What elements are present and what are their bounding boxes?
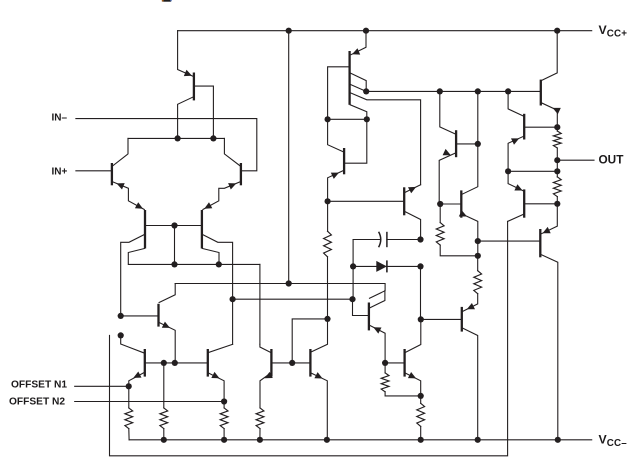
junction VCC+ / Q12 emitter <box>363 28 369 34</box>
junction Q8 base / tie <box>210 135 216 141</box>
wire compensation column <box>420 266 422 319</box>
arrow Q6 emitter <box>211 372 219 378</box>
wire Q9 emitter <box>328 171 344 202</box>
wire Q6 collector row <box>233 298 353 300</box>
resistor R2 <box>160 408 168 429</box>
wire Q4 collector upper <box>203 235 233 345</box>
junction Q20 collector / VCC- <box>555 437 561 443</box>
wire C1/D1 left column <box>352 240 355 300</box>
wire Q2 collector <box>224 138 240 166</box>
transistor Q10 bar <box>270 349 272 377</box>
diode D1 <box>376 261 387 272</box>
decorative cropped glyph <box>162 0 171 2</box>
wire diode column to Q16 base <box>353 299 368 315</box>
junction VCC+ / Q14 collector <box>554 28 560 34</box>
junction bias rail / Q15 collector <box>505 88 511 94</box>
junction Q3-Q4 base tie <box>171 222 177 228</box>
junction C1-D1 left column <box>350 263 356 269</box>
junction Q22 collector / Q23 base <box>418 316 424 322</box>
junction diode column <box>349 296 355 302</box>
junction Q9 emitter / Q18 base row <box>325 198 331 204</box>
capacitor C1 <box>379 232 381 247</box>
resistor R11 <box>553 177 561 197</box>
arrow Q20 emitter <box>543 227 551 233</box>
wire Q15 base <box>525 126 556 128</box>
junction R2 tap <box>161 360 167 366</box>
wire Q13 emitter <box>439 153 455 204</box>
arrow Q14 emitter <box>553 108 561 114</box>
junction Q4 lower collector <box>216 261 222 267</box>
junction Q23 collector / VCC- <box>475 437 481 443</box>
arrow Q10 emitter <box>265 372 273 378</box>
wire Q15 emitter <box>508 136 523 171</box>
wire Q21 collector <box>508 214 524 221</box>
wire Q12 base run <box>328 67 349 120</box>
wire OUT node to row <box>556 160 558 171</box>
wire Q17 emitter <box>462 214 478 256</box>
wire R5 bottom <box>420 426 422 439</box>
junction Q12 collector 4 / IN- net <box>364 116 370 122</box>
wire VCC+ rail <box>178 30 592 32</box>
wire R1 top <box>128 386 130 408</box>
wire R1 bottom <box>128 429 130 440</box>
wire Q22 base <box>385 362 404 364</box>
transistor Q14 bar <box>540 80 542 106</box>
transistor Q18 bar <box>403 187 405 215</box>
junction Q16 emitter / R6 / Q22 base <box>382 360 388 366</box>
junction Q10 base <box>289 360 295 366</box>
junction VCC+ / Q8-Q12 rail <box>286 28 292 34</box>
junction Q12 base / IN- net <box>325 116 331 122</box>
wire Q15 collector <box>508 91 523 116</box>
transistor Q5 bar <box>144 349 146 377</box>
wire Q1 collector <box>113 138 129 166</box>
transistor Q13 bar <box>455 130 457 157</box>
transistor Q21 bar <box>523 189 525 217</box>
wire OUT row link <box>508 170 557 172</box>
wire R7 top from Q18 base row <box>327 201 329 231</box>
arrow Q12 emitter <box>352 48 360 54</box>
wire R10 top <box>556 127 558 131</box>
arrow Q7 emitter <box>162 322 170 328</box>
wire IN+ to Q1 base <box>76 170 111 172</box>
arrow Q22 emitter <box>408 372 416 378</box>
resistor R6 <box>381 373 389 392</box>
wire Q16 collector <box>370 291 385 308</box>
wire Q16 emitter <box>370 325 386 363</box>
wire OFFSET N1 <box>75 385 129 387</box>
resistor R7 <box>324 231 332 257</box>
wire Q3 collector lower <box>128 249 260 265</box>
wire Q12 collector 2 <box>350 84 366 91</box>
wire Q11 emitter <box>311 373 327 440</box>
svg-text:OUT: OUT <box>599 152 625 166</box>
wire Q2 emitter <box>203 182 240 210</box>
wire IN- net segment to Q12 base node <box>328 118 367 120</box>
wire Q22 collector <box>405 319 421 352</box>
transistor Q15 bar <box>523 114 525 140</box>
resistor R10 <box>553 131 561 148</box>
wire Q7 emitter <box>159 323 175 363</box>
junction node N (Q5 collector) <box>118 332 124 338</box>
wire Q1-Q2 collector tie <box>128 137 224 139</box>
wire Q5 emitter <box>129 373 144 387</box>
arrow Q23 emitter <box>467 303 475 309</box>
wire Q10 base link <box>292 319 327 363</box>
arrow Q3 emitter <box>135 202 143 209</box>
wire Q21 base <box>525 203 556 205</box>
junction R4 / VCC- <box>257 437 263 443</box>
junction Q11 emitter / VCC- <box>324 437 330 443</box>
wire R2 bottom <box>163 429 165 440</box>
junction Q17 emitter / Q20 base row <box>475 238 481 244</box>
junction R3 / VCC- <box>221 437 227 443</box>
wire Q23 base <box>421 318 461 320</box>
arrow Q2 emitter <box>228 183 236 189</box>
resistor R4 <box>256 408 264 429</box>
wire Q12 collector 3 run <box>350 93 420 185</box>
svg-text:VCC–: VCC– <box>599 433 628 449</box>
transistor Q23 bar <box>461 307 463 332</box>
wire Q10 base tie <box>272 362 310 364</box>
wire Q20 emitter <box>542 204 558 234</box>
transistor Q6 bar <box>207 349 209 377</box>
junction Q22 emitter / R5 <box>418 393 424 399</box>
junction OUT node <box>554 157 560 163</box>
wire Q3 base tie <box>146 225 202 227</box>
wire Q17 collector column <box>462 91 478 194</box>
arrow Q15 emitter <box>511 138 519 144</box>
junction Q7 emitter / base tie <box>172 360 178 366</box>
wire Q21 emitter <box>508 171 523 191</box>
wire node N to Q5 collector <box>121 335 144 353</box>
junction Q4/Q6 collector <box>230 296 236 302</box>
resistor R5 <box>417 403 425 426</box>
junction D1 / compensation column <box>417 263 423 269</box>
wire Q20 base row <box>478 240 539 242</box>
wire Q17 base <box>440 203 461 205</box>
wire R3 top <box>223 402 225 408</box>
wire Q8 emitter from VCC+ <box>178 31 193 77</box>
wire Q1 emitter <box>113 182 145 210</box>
junction base tie / lower rail <box>171 261 177 267</box>
junction Q12 collectors 1+2 <box>363 88 369 94</box>
resistor R1 <box>125 408 133 429</box>
wire node row to Q7 collector <box>159 284 175 303</box>
wire D1 cathode lead <box>387 265 421 267</box>
wire Q23 collector <box>462 328 477 440</box>
wire Q9 base <box>345 119 367 163</box>
wire Q9 collector <box>328 119 344 152</box>
arrow Q1 emitter <box>117 183 125 189</box>
wire bottom return (node N to Q21 collector) <box>110 221 508 455</box>
wire R10 bottom <box>556 148 558 160</box>
arrow Q21 emitter <box>514 184 522 190</box>
junction Q8 collector / tie <box>175 135 181 141</box>
wire input mirror node row <box>175 284 385 299</box>
transistor Q3 bar <box>144 210 146 249</box>
wire Q10 emitter <box>260 373 271 408</box>
wire VCC+ to input mirror node <box>288 31 290 284</box>
transistor Q2 bar <box>240 163 242 185</box>
wire Q10 collector <box>260 344 271 352</box>
arrow Q16 emitter <box>373 327 381 333</box>
wire R8 top <box>439 204 441 223</box>
wire Q18 emitter <box>405 185 421 193</box>
junction Q13 emitter / Q17 base / R8 <box>437 201 443 207</box>
wire VCC- rail <box>129 439 592 441</box>
arrow Q8 emitter <box>184 70 192 76</box>
arrow Q9 emitter <box>331 173 339 179</box>
junction Q15 emitter / OUT row <box>505 168 511 174</box>
transistor Q9 bar <box>343 148 345 174</box>
wire Q8 base to node A <box>195 86 214 138</box>
wire bias rail to Q14 base <box>366 90 539 92</box>
wire Q14 emitter <box>541 103 557 127</box>
resistor R9 <box>474 271 482 294</box>
transistor Q16 bar <box>368 303 370 331</box>
wire R11 top <box>556 171 558 177</box>
junction R8 / R9 / Q17 emitter <box>475 253 481 259</box>
transistor Q11 bar <box>309 349 311 377</box>
junction R2 / VCC- <box>161 437 167 443</box>
wire R6 bottom <box>385 392 421 396</box>
wire R9 top <box>477 256 479 271</box>
wire Q8 collector to node B <box>178 97 194 139</box>
wire D1 anode lead <box>353 265 376 267</box>
transistor Q4 bar <box>201 210 203 249</box>
wire Q4 collector lower <box>203 249 220 265</box>
junction OFFSET N1 / Q5 emitter <box>126 383 132 389</box>
junction bias rail / Q17 collector column <box>475 88 481 94</box>
svg-text:OFFSET N1: OFFSET N1 <box>11 379 67 390</box>
wire Q20 collector <box>541 255 558 440</box>
junction R5 / VCC- <box>418 437 424 443</box>
wire Q22 emitter <box>405 373 421 396</box>
resistor R8 <box>436 223 444 246</box>
arrow Q5 emitter <box>133 372 141 378</box>
transistor Q22 bar <box>403 349 405 377</box>
wire lower rail corner to Q10 collector <box>259 264 261 344</box>
arrow Q18 emitter <box>408 187 416 193</box>
wire Q12 collector 4 <box>350 105 367 120</box>
arrow Q11 emitter <box>314 372 322 378</box>
junction link / R7 column <box>324 316 330 322</box>
wire R3 bottom <box>223 429 225 440</box>
wire C1 left lead <box>353 239 380 241</box>
junction OUT row <box>554 168 560 174</box>
wire IN- to Q2 base <box>76 119 257 171</box>
wire R2 top <box>163 363 165 408</box>
arrow Q4 emitter <box>204 202 212 209</box>
arrow Q13 emitter <box>443 149 451 155</box>
junction bias rail / Q13 <box>437 88 443 94</box>
wire Q6 collector <box>208 344 232 352</box>
wire C1 right lead <box>387 239 421 241</box>
wire Q12 collector 1 <box>350 73 366 91</box>
junction R11 / Q21 base / Q20 emitter <box>554 201 560 207</box>
wire Q18 base row <box>328 200 404 202</box>
wire R6 top <box>384 363 386 373</box>
svg-text:IN–: IN– <box>52 113 68 124</box>
svg-text:IN+: IN+ <box>52 166 68 177</box>
junction OFFSET N2 / Q6 emitter / R3 <box>221 398 227 404</box>
wire OUT <box>557 159 594 161</box>
wire OFFSET N2 <box>75 401 224 403</box>
junction Q13 base / Q17 column <box>475 141 481 147</box>
wire base tie to lower rail <box>174 226 176 265</box>
wire R11 bottom <box>556 197 558 204</box>
wire Q5 base tie <box>145 362 207 364</box>
wire Q7 base <box>121 315 158 317</box>
wire Q14 collector <box>541 31 557 81</box>
wire Q6 emitter <box>208 373 224 402</box>
wire Q13 collector from bias rail <box>440 91 456 134</box>
junction Q7 base / Q3 collector column <box>118 313 124 319</box>
wire R4 bottom <box>259 429 261 440</box>
junction VCC+ feed / node row <box>286 280 292 286</box>
wire R7 bottom to Q11 collector <box>311 257 328 352</box>
transistor Q12 bar <box>348 51 350 105</box>
wire R8 bottom <box>440 245 478 256</box>
wire Q18 collector <box>405 212 421 240</box>
wire Q12 emitter from VCC+ <box>351 31 366 55</box>
transistor Q7 bar <box>157 304 159 327</box>
arrow Q17 emitter <box>459 210 467 216</box>
wire Q23 emitter <box>462 294 477 312</box>
transistor Q1 bar <box>111 163 113 185</box>
wire R5 top <box>420 396 422 403</box>
transistor Q17 bar <box>460 190 462 217</box>
svg-text:VCC+: VCC+ <box>599 23 628 39</box>
wire Q3 collector upper <box>121 235 145 316</box>
wire Q13 base <box>457 143 478 145</box>
junction Q14 emitter / Q15 base / R10 <box>554 124 560 130</box>
transistor Q20 bar <box>539 229 541 257</box>
resistor R3 <box>220 408 228 429</box>
transistor Q8 bar <box>193 73 195 101</box>
junction C1 / compensation column <box>417 236 423 242</box>
svg-text:OFFSET N2: OFFSET N2 <box>9 397 65 408</box>
